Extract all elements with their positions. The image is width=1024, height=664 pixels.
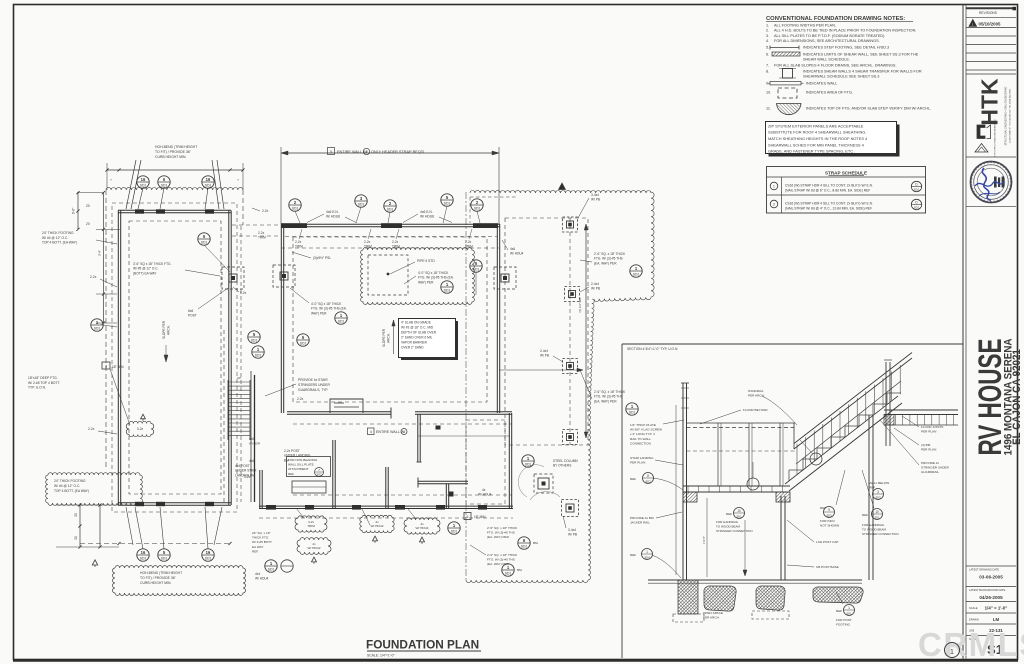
svg-text:2'-6" SQ. x 18" THICK: 2'-6" SQ. x 18" THICK <box>594 390 626 394</box>
section footing hatch left <box>678 580 698 614</box>
svg-text:ZIP SYSTEM EXTERIOR PANELS ARE: ZIP SYSTEM EXTERIOR PANELS ARE ACCEPTABL… <box>768 123 864 128</box>
svg-text:4x6: 4x6 <box>249 459 254 463</box>
lower-left house wall <box>259 470 261 509</box>
svg-text:SD4: SD4 <box>644 555 650 559</box>
entire wall note 4 <box>368 428 375 435</box>
garage shear header blocks bottom <box>135 502 144 506</box>
svg-text:3'-6" SQ x 18" THICK FTG.: 3'-6" SQ x 18" THICK FTG. <box>133 262 172 266</box>
left dim line inner <box>103 193 105 323</box>
callout b SD1 mid <box>248 331 260 343</box>
svg-text:3-2x: 3-2x <box>137 427 144 431</box>
svg-text:STRINGERS UNDER: STRINGERS UNDER <box>298 383 330 387</box>
svg-text:3-4x4: 3-4x4 <box>591 193 599 197</box>
stamp signature scribble <box>982 168 990 201</box>
section ground line <box>648 579 862 581</box>
svg-text:4: 4 <box>370 430 372 434</box>
top wall callouts <box>289 199 301 211</box>
landing small rect <box>292 481 326 493</box>
svg-text:FTG. W/ (3)-#5 THS: FTG. W/ (3)-#5 THS <box>594 395 623 399</box>
svg-text:REF: REF <box>836 609 842 613</box>
svg-text:PER ARCH.: PER ARCH. <box>748 394 765 398</box>
wall bump <box>330 399 363 413</box>
svg-text:DEPTH OF SLAB OVER: DEPTH OF SLAB OVER <box>401 331 437 335</box>
section guardrail diagonal <box>794 358 912 449</box>
svg-text:DRAWN: DRAWN <box>969 618 979 622</box>
svg-text:SD1: SD1 <box>387 207 394 211</box>
svg-text:24" THICK FOOTING: 24" THICK FOOTING <box>54 479 86 483</box>
garage left wall <box>117 211 119 506</box>
svg-text:SD1: SD1 <box>444 201 451 205</box>
svg-text:1/4" = 1'-0": 1/4" = 1'-0" <box>985 606 1008 611</box>
steel column hatched arc <box>518 465 544 497</box>
bubble 4x hdu2 <box>360 515 394 532</box>
house top wall <box>281 226 500 228</box>
svg-text:SD3: SD3 <box>826 513 832 517</box>
svg-text:FOR HANDRAIL: FOR HANDRAIL <box>862 523 885 527</box>
svg-text:PROVIDE 4x: PROVIDE 4x <box>921 461 940 465</box>
section wall post <box>682 383 684 580</box>
svg-text:7.: 7. <box>766 64 769 68</box>
svg-text:2.: 2. <box>766 29 769 33</box>
svg-text:SD1: SD1 <box>255 353 262 357</box>
svg-text:SD1: SD1 <box>633 272 640 276</box>
svg-text:PIPE 9 STD: PIPE 9 STD <box>417 259 435 263</box>
section cut line <box>465 192 467 580</box>
svg-text:8: 8 <box>647 474 649 478</box>
svg-text:CONNECTION: CONNECTION <box>630 441 651 445</box>
svg-text:24" SQ. x 18": 24" SQ. x 18" <box>252 531 271 535</box>
svg-text:STRAP SCHEDULE: STRAP SCHEDULE <box>825 170 867 175</box>
svg-text:MATCH SHEATHING HEIGHTS IN THE: MATCH SHEATHING HEIGHTS IN THE ROOF NOTE… <box>768 136 868 141</box>
svg-text:1/4" THICK PLATE: 1/4" THICK PLATE <box>630 423 656 427</box>
interior wall v2 <box>385 467 387 509</box>
svg-text:BY OTHERS: BY OTHERS <box>553 464 571 468</box>
svg-text:9: 9 <box>828 508 830 512</box>
svg-text:SD1: SD1 <box>358 202 365 206</box>
svg-text:S: S <box>1009 181 1013 183</box>
svg-text:SLOPE PER: SLOPE PER <box>162 320 166 339</box>
svg-text:3-4x4: 3-4x4 <box>568 528 576 532</box>
svg-text:FOR ALL DIMENSIONS, SEE ARCHIT: FOR ALL DIMENSIONS, SEE ARCHITECTURAL DR… <box>774 39 880 43</box>
interior wall v3 <box>417 414 419 462</box>
svg-text:SLOPE PER: SLOPE PER <box>382 328 386 347</box>
engineer stamp seal <box>971 162 1012 203</box>
svg-text:SD1: SD1 <box>205 183 212 187</box>
strap row 1 mark <box>770 182 778 190</box>
svg-text:W/ 2-#5 TOP 4 BOTT.: W/ 2-#5 TOP 4 BOTT. <box>28 381 60 385</box>
garage lower-left cloud note <box>46 473 143 506</box>
dashed link garage to house <box>232 224 280 226</box>
section ref10 left label <box>734 508 745 519</box>
header strap note box top <box>328 148 335 155</box>
slab note box <box>401 321 458 360</box>
svg-text:SD1: SD1 <box>292 206 299 210</box>
svg-text:CURB HEIGHT MIN.: CURB HEIGHT MIN. <box>140 581 171 585</box>
svg-text:REF: REF <box>862 513 868 517</box>
svg-text:PROVIDE 4x STAIR: PROVIDE 4x STAIR <box>298 378 328 382</box>
svg-text:W/ #4 @ 12" O.C.: W/ #4 @ 12" O.C. <box>42 236 68 240</box>
svg-text:SD1: SD1 <box>140 183 147 187</box>
svg-text:RAIL TO WALL: RAIL TO WALL <box>630 437 651 441</box>
svg-text:CURB HEIGHT MIN.: CURB HEIGHT MIN. <box>155 155 186 159</box>
svg-text:4x4 POST: 4x4 POST <box>235 464 250 468</box>
HTK logo mark <box>977 125 985 139</box>
svg-text:W/ HDR: W/ HDR <box>249 442 261 446</box>
svg-text:W/ PB: W/ PB <box>568 533 577 537</box>
svg-text:FLOOR JOISTS: FLOOR JOISTS <box>921 425 943 429</box>
section landing floor <box>683 485 790 487</box>
svg-text:18" MIN.: 18" MIN. <box>112 365 124 369</box>
callout left wall <box>91 319 103 331</box>
house bottom right region dashed <box>466 420 505 504</box>
svg-text:TO FIT) / PROVIDE 36": TO FIT) / PROVIDE 36" <box>140 576 177 580</box>
svg-text:SD1: SD1 <box>914 188 920 192</box>
svg-text:4.: 4. <box>766 39 769 43</box>
revision table rows <box>966 27 1016 29</box>
svg-text:S: S <box>990 160 992 164</box>
svg-text:FOR ALL SLAB SLOPES 4 FLOOR DR: FOR ALL SLAB SLOPES 4 FLOOR DRAINS, SEE … <box>774 64 897 68</box>
svg-text:6.: 6. <box>766 53 769 57</box>
garage curb flare lines bottom <box>126 507 133 545</box>
svg-text:W/ PB: W/ PB <box>591 287 600 291</box>
svg-text:4'-0" SQ x 18" THICK: 4'-0" SQ x 18" THICK <box>311 302 342 306</box>
svg-text:LCE POST CAP: LCE POST CAP <box>816 540 838 544</box>
svg-text:2-2x: 2-2x <box>258 231 265 235</box>
house interior dashed under top wall <box>281 247 499 249</box>
section landing balusters <box>717 423 719 486</box>
svg-text:1: 1 <box>646 550 648 554</box>
svg-text:2-2x POST: 2-2x POST <box>284 449 300 453</box>
garage outer cloud boundary <box>106 187 243 190</box>
svg-text:HGH-BEND (TRIM HEIGHT: HGH-BEND (TRIM HEIGHT <box>155 145 197 149</box>
dashed lines mid rooms <box>293 423 512 425</box>
svg-text:2-2x: 2-2x <box>392 240 399 244</box>
garage footing dashed inner <box>129 221 221 494</box>
section viewport border <box>622 343 963 345</box>
svg-text:ARCH.: ARCH. <box>387 333 391 343</box>
plan right cloud boundary lower <box>588 410 591 580</box>
svg-text:CS16 (W) STRAP HDR 4 SILL TO C: CS16 (W) STRAP HDR 4 SILL TO CONT. 2x BL… <box>785 183 873 187</box>
strap row 2 mark <box>770 200 778 208</box>
svg-text:3: 3 <box>877 490 879 494</box>
bottom wall shear headers <box>266 505 276 510</box>
section landing rail top <box>687 422 796 424</box>
bubble 3-2x trim bottom <box>295 516 327 532</box>
bottom wall footing dash <box>259 517 513 519</box>
svg-text:LANDING BM: LANDING BM <box>235 473 255 477</box>
svg-text:(NAIL STRAP W/ 8d @ 4" O.C., 1: (NAIL STRAP W/ 8d @ 4" O.C., 12-8d MIN. … <box>785 207 872 211</box>
lower right wall <box>508 413 510 509</box>
svg-text:11.: 11. <box>766 107 771 111</box>
svg-text:3: 3 <box>105 365 107 369</box>
svg-text:4x6 E.N.: 4x6 E.N. <box>326 210 339 214</box>
svg-text:6x6: 6x6 <box>188 309 193 313</box>
svg-text:5.: 5. <box>766 46 769 50</box>
house top wall shear headers <box>281 223 307 228</box>
svg-text:UNDER STAIR: UNDER STAIR <box>235 469 257 473</box>
porch pier 2 <box>565 287 580 302</box>
svg-text:W/ PB: W/ PB <box>591 198 600 202</box>
svg-text:(4) BM: (4) BM <box>921 443 931 447</box>
svg-text:ALL 4 H.D. BOLTS TO BE TIED IN: ALL 4 H.D. BOLTS TO BE TIED IN PLACE PRI… <box>774 29 916 33</box>
section upper floor <box>884 409 958 411</box>
svg-text:20: 20 <box>86 222 90 226</box>
svg-text:REF: REF <box>630 553 636 557</box>
section circled node stair <box>810 453 822 465</box>
svg-text:05/10/2005: 05/10/2005 <box>979 21 1002 26</box>
section landing beam hatch <box>683 492 697 502</box>
svg-text:SD1: SD1 <box>444 288 451 292</box>
svg-text:8.: 8. <box>766 70 769 74</box>
svg-text:EL CAJON CA 92021: EL CAJON CA 92021 <box>1011 349 1023 445</box>
section landing-guard join <box>793 423 795 449</box>
svg-text:W/ #3 @ 18" O.C. MID: W/ #3 @ 18" O.C. MID <box>401 326 434 330</box>
svg-text:CB POST BASE: CB POST BASE <box>816 565 839 569</box>
porch pier 1 <box>563 217 578 232</box>
svg-text:REF: REF <box>820 506 826 510</box>
nonbearing wall note box <box>287 457 331 477</box>
svg-text:LATEST BACKGROUND DATE: LATEST BACKGROUND DATE <box>969 588 1006 592</box>
svg-text:CS16 (W) STRAP HDR 4 SILL TO C: CS16 (W) STRAP HDR 4 SILL TO CONT. 2x BL… <box>785 201 873 205</box>
svg-text:W/ HDU4: W/ HDU4 <box>478 493 492 497</box>
svg-text:SD1: SD1 <box>846 611 852 615</box>
pier 2-4x4 PB lower <box>562 500 579 517</box>
svg-text:FOR POST: FOR POST <box>836 618 852 622</box>
svg-text:SD1: SD1 <box>521 544 528 548</box>
svg-text:BM.: BM. <box>533 541 539 545</box>
callout 5 SD1 near stair <box>297 334 309 346</box>
shower dashed rect <box>368 255 408 295</box>
svg-text:W/ PB: W/ PB <box>540 354 549 358</box>
svg-text:EA WAY: EA WAY <box>252 545 264 549</box>
svg-text:ATTACHMENT: ATTACHMENT <box>288 467 309 471</box>
svg-text:4x6: 4x6 <box>510 247 515 251</box>
svg-text:2'-6" SQ. x 18" THICK: 2'-6" SQ. x 18" THICK <box>487 553 518 557</box>
house right wall <box>496 224 498 413</box>
entire wall reference line <box>418 435 510 437</box>
svg-text:STRINGER CONNECTION: STRINGER CONNECTION <box>716 529 753 533</box>
svg-text:REVISIONS: REVISIONS <box>979 11 998 15</box>
stair landing beam <box>254 375 256 502</box>
porch cloud boundary top <box>470 190 651 193</box>
svg-text:2-4x4: 2-4x4 <box>540 349 548 353</box>
6 18min box <box>464 513 471 520</box>
svg-text:PER PLAN: PER PLAN <box>921 430 936 434</box>
garage top wall <box>118 212 231 214</box>
svg-text:REF: REF <box>869 486 875 490</box>
svg-text:FTG. W/ (3)-#5 THS: FTG. W/ (3)-#5 THS <box>594 257 623 261</box>
svg-text:SUBSTITUTE FOR ROOF 4 SHEARWAL: SUBSTITUTE FOR ROOF 4 SHEARWALL SHEATHIN… <box>768 130 866 135</box>
svg-text:PER ARCH.: PER ARCH. <box>703 616 720 620</box>
ZIP system note box <box>769 125 900 157</box>
svg-text:TRIM: TRIM <box>307 524 315 528</box>
svg-text:S: S <box>969 181 973 183</box>
section footing mid post <box>756 586 785 610</box>
svg-text:2-2x: 2-2x <box>364 240 371 244</box>
garage footing pad right wall <box>222 267 244 289</box>
svg-text:SECTION # 3/4"=1'-0" TYP, U.O.: SECTION # 3/4"=1'-0" TYP, U.O.N. <box>627 347 678 351</box>
pad house left wall <box>273 265 295 287</box>
callout bottom right pair <box>448 522 460 534</box>
svg-text:CONVENTIONAL FOUNDATION DRAWIN: CONVENTIONAL FOUNDATION DRAWING NOTES: <box>766 16 905 22</box>
svg-text:W/ HDU4: W/ HDU4 <box>510 252 524 256</box>
svg-text:TO WOOD BEAM: TO WOOD BEAM <box>716 525 740 529</box>
svg-text:1234 E MAIN ST • EL CAJON CA •: 1234 E MAIN ST • EL CAJON CA • TEL (619)… <box>1009 88 1012 143</box>
svg-text:2-2x: 2-2x <box>90 275 97 279</box>
svg-text:ARCH.: ARCH. <box>167 325 171 335</box>
svg-text:HANDRAIL: HANDRAIL <box>748 389 764 393</box>
svg-text:INDICATES LIMITS OF SHEAR WALL: INDICATES LIMITS OF SHEAR WALL, SEE SHEE… <box>803 53 919 57</box>
svg-text:20: 20 <box>74 513 78 517</box>
svg-text:FTG. W/ (3)-#5 THS: FTG. W/ (3)-#5 THS <box>487 558 515 562</box>
revision delta 05/10/2005 <box>969 20 977 27</box>
svg-text:4x6 E.N.: 4x6 E.N. <box>420 210 433 214</box>
svg-text:VAPOR BARRIER: VAPOR BARRIER <box>401 341 428 345</box>
svg-text:W/ HDU2: W/ HDU2 <box>370 524 383 528</box>
svg-text:STRUCTURAL ENGINEERING • CIVI: STRUCTURAL ENGINEERING • CIVIL ENGINEERI… <box>1005 86 1008 145</box>
porch pier 4 <box>563 430 578 445</box>
garage callouts top row <box>137 176 149 188</box>
svg-text:(EA. WAY) PER: (EA. WAY) PER <box>487 535 510 539</box>
svg-text:PROVIDE 4x BM: PROVIDE 4x BM <box>630 516 654 520</box>
steel column <box>534 474 553 493</box>
corridor dashed line <box>240 226 242 502</box>
svg-text:NOT SHOWN: NOT SHOWN <box>820 524 839 528</box>
svg-text:JACKER RAIL: JACKER RAIL <box>630 521 650 525</box>
stair dashed boundary <box>223 330 225 502</box>
garage dim line top <box>107 169 243 171</box>
svg-text:SHEARWALL SCHED FOR MIN PANEL: SHEARWALL SCHED FOR MIN PANEL THICKNESS … <box>768 142 865 147</box>
svg-text:2-2x: 2-2x <box>295 240 302 244</box>
svg-text:ONLY HEADER STRAP REQ'D: ONLY HEADER STRAP REQ'D <box>371 150 425 154</box>
svg-text:CRMLS: CRMLS <box>918 626 1024 663</box>
svg-text:SD1: SD1 <box>473 267 480 271</box>
svg-text:INDICATES WALL: INDICATES WALL <box>806 82 837 86</box>
svg-text:THICK FTG.: THICK FTG. <box>252 536 269 540</box>
garage curb flare lines top <box>126 160 136 209</box>
svg-text:SCALE: 1/4"=1'-0": SCALE: 1/4"=1'-0" <box>367 654 395 658</box>
svg-text:24" THICK FOOTING: 24" THICK FOOTING <box>42 231 74 235</box>
shower cloud <box>361 248 475 305</box>
svg-text:W/ HDU4: W/ HDU4 <box>255 577 269 581</box>
svg-text:FOR HANDRAIL: FOR HANDRAIL <box>716 520 739 524</box>
svg-text:3.: 3. <box>766 34 769 38</box>
corridor solid line <box>250 371 252 502</box>
svg-text:SHEARWALL SCHEDULE SEE SHEET S: SHEARWALL SCHEDULE SEE SHEET SS.3 <box>803 75 879 79</box>
garage callouts bottom row <box>137 549 149 561</box>
svg-text:10: 10 <box>875 510 879 514</box>
svg-text:WAY) PER: WAY) PER <box>418 280 434 284</box>
svg-text:4'-0" SQ x 18" THICK: 4'-0" SQ x 18" THICK <box>418 271 449 275</box>
bubble 4x hdu2 right <box>297 538 331 555</box>
svg-text:STAIR LANDING: STAIR LANDING <box>630 456 654 460</box>
section footing blob mid <box>704 586 736 611</box>
svg-text:(BOTT) EA WAY: (BOTT) EA WAY <box>133 271 157 275</box>
section right post <box>868 415 870 580</box>
svg-text:SD1: SD1 <box>914 206 920 210</box>
boxed 3 marker <box>102 362 110 369</box>
revisions header <box>966 7 1016 9</box>
cloud squiggle right edge <box>588 299 594 410</box>
svg-text:HTK STRUCTURAL ENGINEERS INC: HTK STRUCTURAL ENGINEERS INC <box>994 119 997 157</box>
svg-text:SD1: SD1 <box>874 515 880 519</box>
svg-text:SD3: SD3 <box>875 495 881 499</box>
svg-text:16: 16 <box>206 550 211 555</box>
svg-text:2-2x: 2-2x <box>297 397 304 401</box>
svg-text:SD1: SD1 <box>736 514 742 518</box>
svg-text:(6) 1/2" MIL: (6) 1/2" MIL <box>578 297 582 312</box>
svg-text:± 9'-5": ± 9'-5" <box>702 536 706 544</box>
svg-text:OPEN SPACE: OPEN SPACE <box>703 611 723 615</box>
svg-text:GRADE, AND FASTENER TYPE SPACI: GRADE, AND FASTENER TYPE SPACING, ETC . <box>768 149 855 154</box>
stair main flight treads <box>228 381 250 383</box>
circled 1 sheet note <box>945 643 960 658</box>
svg-text:REF: REF <box>726 512 732 516</box>
svg-text:16: 16 <box>141 177 146 182</box>
stamp center registration marks <box>994 177 997 188</box>
left dim lines lower <box>79 505 81 547</box>
svg-text:FTG. W/ (3)-#5 THS (EA.: FTG. W/ (3)-#5 THS (EA. <box>311 307 347 311</box>
svg-text:SD1: SD1 <box>268 567 275 571</box>
svg-text:HGH-BEND (TRIM HEIGHT: HGH-BEND (TRIM HEIGHT <box>140 571 182 575</box>
svg-text:WALL BELOW: WALL BELOW <box>869 481 889 485</box>
svg-text:SHEAR WALL SCHEDULE.: SHEAR WALL SCHEDULE. <box>803 58 850 62</box>
svg-text:SD1: SD1 <box>251 338 258 342</box>
svg-text:SCALE: SCALE <box>969 606 978 610</box>
svg-text:TOP 4 BOTT. (EA WAY): TOP 4 BOTT. (EA WAY) <box>42 241 77 245</box>
svg-text:INDICATES SHEAR WALLS 4 SHEAR: INDICATES SHEAR WALLS 4 SHEAR TRANSFER F… <box>803 70 922 74</box>
svg-text:W/ #4 @ 12" O.C.: W/ #4 @ 12" O.C. <box>54 484 80 488</box>
svg-text:1: 1 <box>366 150 368 154</box>
svg-text:POST: POST <box>188 314 197 318</box>
svg-text:TRIM: TRIM <box>258 236 266 240</box>
svg-text:BM.: BM. <box>517 568 523 572</box>
garage curb note bottom cloud <box>113 566 246 596</box>
garage bottom dashed line <box>80 543 232 545</box>
svg-text:(EA. WAY) PER: (EA. WAY) PER <box>594 399 617 403</box>
svg-text:4" SLAB ON GRADE: 4" SLAB ON GRADE <box>401 321 431 325</box>
interior wall v1 <box>332 440 334 509</box>
garage slab dashed outer <box>112 203 237 512</box>
garage shear header blocks top <box>135 209 144 213</box>
svg-text:STRINGER CONNECTION: STRINGER CONNECTION <box>862 532 899 536</box>
svg-text:04/26-2005: 04/26-2005 <box>979 595 1003 600</box>
svg-text:PER PLAN: PER PLAN <box>630 461 645 465</box>
svg-text:UP: UP <box>237 376 241 380</box>
svg-text:SD1: SD1 <box>525 462 532 466</box>
svg-text:9'-6": 9'-6" <box>72 207 76 214</box>
section footing blob right <box>813 587 863 603</box>
house interior dashed footing lines <box>293 237 487 402</box>
svg-text:2" SAND OVER 6 MIL: 2" SAND OVER 6 MIL <box>401 336 433 340</box>
svg-text:W/ #5 @ 12" O.C.: W/ #5 @ 12" O.C. <box>133 267 159 271</box>
interior wall horizontal mid <box>287 413 391 415</box>
section dim marks left <box>675 405 677 575</box>
title strip divider line <box>962 5 964 659</box>
svg-text:20: 20 <box>86 204 90 208</box>
svg-text:W/ 5/8" 4 LAG SCREW: W/ 5/8" 4 LAG SCREW <box>630 428 662 432</box>
porch delta marker <box>559 183 566 190</box>
svg-text:INDICATES TOP OF FTG. AND/OR S: INDICATES TOP OF FTG. AND/OR SLAB STEP V… <box>806 107 931 111</box>
strap schedule table <box>767 167 926 214</box>
interior wall t <box>418 483 468 485</box>
svg-text:2-4x4: 2-4x4 <box>591 282 599 286</box>
bubble 4x hdu4 <box>404 518 440 534</box>
bubble 3-2x left <box>126 421 154 436</box>
svg-text:GUARDRAILS, TYP.: GUARDRAILS, TYP. <box>298 388 328 392</box>
svg-text:2-2x: 2-2x <box>262 209 269 213</box>
svg-text:18"x18" DEEP FTG.: 18"x18" DEEP FTG. <box>28 376 58 380</box>
